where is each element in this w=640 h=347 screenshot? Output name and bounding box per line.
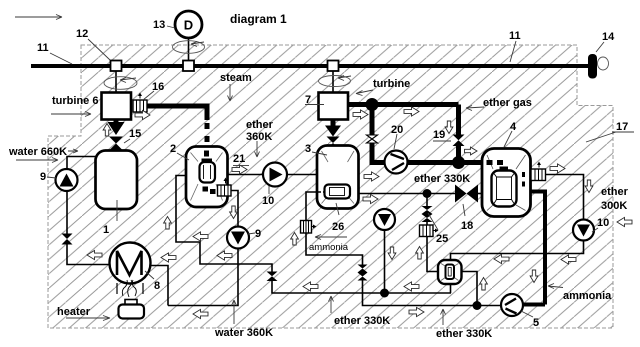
heater 8 circle [110, 243, 151, 284]
leader line 11 left [50, 53, 72, 64]
pipe vessel 4 outlet to cooler 5 [531, 192, 546, 305]
check valve 18 [455, 185, 467, 203]
flow arrow up at 107,136 [103, 124, 111, 137]
bus junction square under D [183, 61, 194, 72]
flow arrow up at 483.5,290 [480, 278, 488, 291]
rotation arrow generator shaft [191, 42, 204, 47]
wire ammonia fitting down and across [306, 233, 363, 265]
heater 8 flame and stand [117, 280, 143, 297]
pump 10 left [263, 163, 287, 187]
leader line 16 [143, 91, 154, 100]
svg-text:360K: 360K [246, 131, 272, 143]
pump 9 left [56, 169, 78, 191]
flow arrow left at 208,236.5 [193, 232, 208, 241]
vessel 2 internal dashes to fitting [203, 187, 216, 195]
flow arrow left at 232,255.5 [217, 251, 232, 260]
rotation arrow turbine 6 shaft [120, 78, 136, 83]
vessel 2 internal column [200, 162, 216, 183]
wire pump 9 left down to valve [66, 191, 68, 234]
flow arrow left at 632,222 [617, 217, 632, 226]
wire small vessel left to fitting 25 column [427, 236, 439, 272]
svg-text:turbine 6: turbine 6 [52, 95, 98, 107]
fitting 21 on vessel 2 wall [218, 178, 232, 197]
vessel 4 [482, 149, 531, 217]
leader arrow water 660K inlet [16, 158, 58, 163]
turbine 6 discharge arrow 15 [108, 120, 125, 151]
leader arrow turbine 6 [51, 112, 91, 117]
wire vessel 2 left drain staircase [176, 176, 238, 265]
svg-text:ether: ether [246, 119, 274, 131]
flow arrow down at 233.5,206 [230, 206, 238, 219]
leader line 17 underline [612, 131, 634, 133]
svg-text:ether 330K: ether 330K [414, 173, 470, 185]
pump 10 right [573, 220, 594, 241]
svg-text:10: 10 [262, 195, 274, 207]
svg-text:9: 9 [255, 228, 261, 240]
fitting 25 [420, 225, 439, 237]
leader arrow ammonia right [548, 284, 563, 289]
pipe pump 20 to dot [408, 160, 459, 165]
leader line 10 right [592, 228, 598, 232]
flow arrow right at 135,115 [135, 110, 150, 119]
wire main shaft bus line 11 [31, 64, 588, 68]
leader line 19 underline [433, 140, 451, 142]
junction node ammonia bottom run [473, 301, 482, 310]
flow arrow right at 232,169.5 [232, 165, 247, 174]
svg-text:13: 13 [153, 19, 165, 31]
wire riser generator D to bus [188, 38, 190, 62]
junction node ether 330K line [423, 189, 432, 198]
vessel 4 internal column [492, 171, 517, 207]
steam pipe dashes above vessel 2 [205, 123, 210, 142]
svg-text:20: 20 [391, 124, 403, 136]
svg-text:4: 4 [510, 121, 517, 133]
wire pump 10 to vessel 3 [287, 174, 318, 176]
vessel 3 [317, 146, 359, 209]
wire vessel 3 ammonia branch [306, 192, 318, 221]
wire stub to small vessel bottom [450, 284, 452, 294]
pipe down from junction dot to white valve [370, 105, 375, 136]
flow arrow left at 576,259.5 [561, 255, 576, 264]
rotation arrow turbine 7 shaft [338, 76, 351, 81]
svg-text:D: D [184, 18, 193, 33]
leader line 26 [336, 203, 339, 215]
leader arrow heater [66, 316, 110, 321]
svg-text:12: 12 [76, 28, 88, 40]
svg-text:ether 330K: ether 330K [334, 315, 390, 327]
pipe steam turbine 6 to vessel 2 [147, 106, 207, 120]
wire vessel 2 fitting to pump 9 right [228, 191, 239, 228]
svg-text:9: 9 [40, 171, 46, 183]
rotation ellipse turbine 6 shaft [104, 77, 137, 90]
valve on x272 drain [267, 272, 278, 282]
svg-text:heater: heater [57, 306, 91, 318]
leader line 5 [521, 311, 533, 317]
leader line 9 right [248, 233, 255, 234]
bus junction square 12 [111, 61, 122, 72]
valve at vessel 1 feed pump line [62, 234, 73, 245]
bus junction square turbine 7 [328, 61, 339, 72]
leader line 10 left [268, 186, 270, 194]
wire valve down to bottom header [272, 280, 451, 293]
leader line 20 [394, 134, 397, 149]
pipe ether gas turbine 7 output [348, 102, 459, 107]
turbine 7 [319, 93, 349, 120]
steam dash inside vessel 2 [204, 151, 209, 157]
flow arrow down at 392,247 [388, 247, 396, 260]
wire pump down to bottom header dot [384, 230, 386, 293]
svg-text:21: 21 [233, 153, 245, 165]
svg-text:1: 1 [103, 224, 109, 236]
leader line 25 [428, 213, 438, 230]
svg-text:water 660K: water 660K [8, 146, 67, 158]
flow arrow left at 509,259 [494, 254, 509, 263]
pipe dot into vessel 4 [459, 160, 484, 165]
pipe into cooler 5 [523, 303, 546, 307]
leader line 21 underline [233, 165, 249, 167]
turbine 7 discharge arrow [325, 120, 341, 150]
wire vessel 3 to check valve 18 [359, 193, 457, 195]
svg-text:18: 18 [461, 220, 473, 232]
stacked valves above fitting 25 [422, 206, 433, 214]
shaft end bearing 14 [588, 54, 597, 79]
flow arrow right at 409,312 [409, 307, 424, 316]
svg-text:300K: 300K [601, 200, 627, 212]
leader line 1 [116, 200, 118, 221]
svg-text:ammonia: ammonia [309, 242, 349, 253]
wire pump 10 right up to vessel 4 fitting [546, 175, 584, 220]
flow arrow right at 404,111.5 [404, 107, 419, 116]
expander 5 [501, 294, 523, 316]
wire water 360K bottom run [168, 249, 238, 306]
flow arrow left at 419,286.5 [404, 282, 419, 291]
flow arrow up at 294.5,245 [291, 233, 299, 246]
svg-text:17: 17 [616, 121, 628, 133]
leader line 18 [463, 204, 465, 216]
svg-text:25: 25 [436, 233, 448, 245]
leader arrow ammonia left [315, 235, 347, 240]
vessel 3 internal exchanger 26 [318, 185, 350, 199]
svg-text:water 360K: water 360K [214, 327, 273, 339]
wire ether 360K vessel 2 to pump 10 [228, 174, 264, 176]
flow arrow left at 318,286.5 [303, 282, 318, 291]
wire check valve 18 to vessel 4 [477, 193, 483, 195]
svg-text:8: 8 [154, 280, 160, 292]
svg-text:ether gas: ether gas [483, 97, 532, 109]
rotation ellipse turbine 7 shaft [319, 76, 351, 87]
flow arrow right at 353,114.5 [353, 110, 368, 119]
svg-text:3: 3 [305, 143, 311, 155]
wire fitting 25 up to stacked valves [426, 222, 428, 225]
vessel 1 [96, 151, 138, 210]
wire vessel 3 bottom to pump [384, 209, 386, 210]
pump under vessel 3 [374, 209, 395, 230]
junction node ether gas at vessel 4 [452, 156, 465, 169]
flow arrow up at 167.5,229 [164, 217, 172, 230]
svg-text:26: 26 [332, 221, 344, 233]
svg-text:15: 15 [129, 128, 141, 140]
leader line 4 [504, 131, 512, 147]
leader line 15 [124, 139, 130, 143]
flow arrow right at 364,176.5 [364, 172, 379, 181]
svg-text:16: 16 [152, 81, 164, 93]
svg-text:2: 2 [170, 143, 176, 155]
leader arrow ether gas [466, 106, 484, 111]
stacked valves on x362 ammonia drop [358, 265, 368, 273]
leader arrow steam [228, 84, 233, 101]
flow arrow up at 419.5,259 [416, 247, 424, 260]
leader line 14 [596, 42, 604, 52]
flow arrow right at 363,199 [363, 194, 378, 203]
svg-text:11: 11 [509, 30, 521, 42]
svg-text:11: 11 [37, 42, 49, 54]
wire riser turbine 7 to bus [332, 71, 334, 93]
leader line 8 [145, 271, 154, 279]
vessel 4 internal dashes right [522, 172, 525, 187]
svg-text:14: 14 [602, 31, 615, 43]
leader arrow ether 360K [255, 141, 260, 157]
flow arrow left at 208,314 [193, 309, 208, 318]
black valve 19 [453, 135, 465, 147]
hatched system boundary region [48, 45, 613, 328]
svg-text:19: 19 [433, 129, 445, 141]
leader line 7 [305, 104, 324, 106]
fitting 16 on steam line [133, 93, 147, 113]
rotation ellipse at 14 [598, 57, 609, 70]
turbine 6 [102, 93, 132, 120]
compressor 20 [385, 151, 408, 174]
leader arrow water 360K [232, 300, 237, 324]
wire small vessel top to ether 300K run [451, 241, 584, 261]
fitting on vessel 4 right wall [531, 162, 546, 181]
pipe valve 19 to dot [456, 146, 461, 163]
pump 9 right [227, 227, 249, 249]
svg-text:diagram 1: diagram 1 [230, 12, 287, 26]
wire riser turbine 6 to bus [115, 71, 117, 93]
arrow top left [15, 15, 62, 20]
vessel 4 internal pipe cap [500, 167, 509, 173]
svg-text:ammonia: ammonia [563, 290, 612, 302]
svg-text:5: 5 [533, 317, 539, 329]
leader line 3 [312, 152, 327, 155]
svg-text:ether: ether [601, 186, 629, 198]
junction node bottom header [380, 289, 389, 298]
junction node turbine 7 output [366, 98, 379, 111]
pipe white valve to pump 20 [372, 143, 385, 163]
flow arrow down at 589,180 [585, 180, 593, 193]
vessel 2 [186, 147, 228, 208]
svg-text:10: 10 [597, 217, 609, 229]
leader arrow turbine 7 [356, 90, 373, 96]
wire heater 8 outlet right then down [151, 266, 169, 306]
leader line 12 [88, 39, 110, 60]
leader arrow water 660K to pump [68, 149, 78, 153]
wire water 660K inlet to vessel 1 [67, 157, 96, 171]
leader line 2 [177, 153, 189, 160]
generator D [175, 11, 202, 38]
leader line 17 [586, 132, 616, 142]
fitting ammonia cooler on vessel 3 branch [301, 221, 317, 234]
leader arrow ether 330K bottom [329, 296, 334, 313]
flow arrow right at 464.5,151 [465, 147, 478, 155]
rotation ellipse generator shaft [173, 41, 205, 54]
svg-text:ether 330K: ether 330K [436, 328, 492, 340]
flow arrow down at 449,121 [445, 121, 453, 134]
leader arrow ether 330K right [441, 309, 446, 325]
ether gas dashes inside vessel 4 [487, 160, 504, 165]
vessel 2 internal pipe cap [202, 159, 213, 165]
heater burner [119, 300, 145, 319]
leader line 9 left [47, 177, 56, 178]
wire below stacked valves down to bottom run [363, 280, 502, 306]
leader line 13 [167, 26, 175, 28]
leader line 11 right [510, 41, 516, 62]
white valve on turbine 7 drop [367, 135, 378, 143]
flow arrow right at 550,168.5 [550, 164, 565, 173]
flow arrow down at 534,270 [530, 270, 538, 283]
pipe ether gas corner down to valve 19 [456, 105, 461, 136]
flow arrow left at 102,255 [87, 250, 102, 259]
wire junction to valve at x272 [238, 264, 272, 272]
svg-text:steam: steam [220, 72, 252, 84]
small vessel ammonia separator [438, 260, 462, 284]
svg-text:turbine: turbine [373, 78, 410, 90]
wire stacked valves up to node [426, 194, 428, 207]
wire valve to heater 8 inlet [67, 244, 110, 265]
wire riser from dot to small vessel right [461, 272, 477, 306]
svg-text:7: 7 [305, 94, 311, 106]
flow arrow left at 176,257.5 [161, 253, 176, 262]
